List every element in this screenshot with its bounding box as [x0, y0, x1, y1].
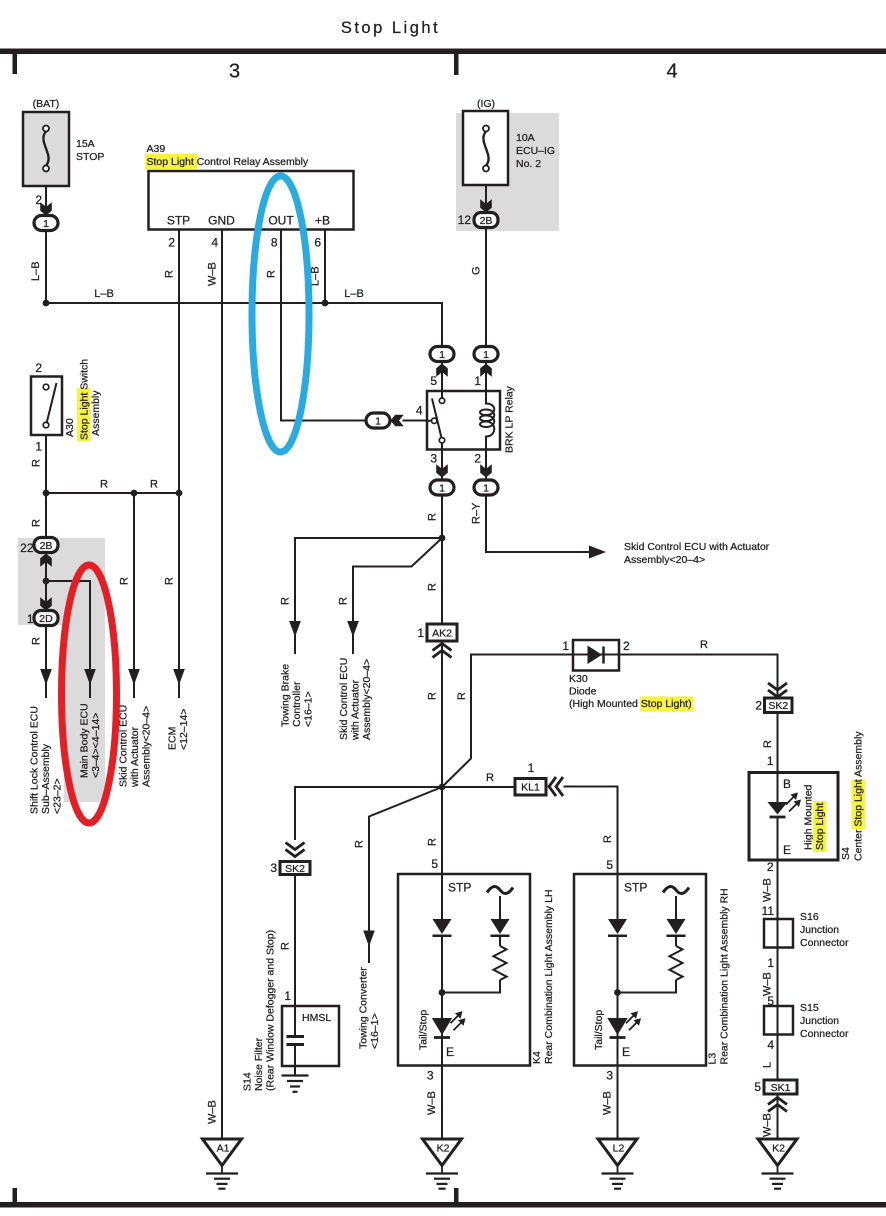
svg-text:ECM: ECM	[167, 727, 179, 750]
pin 1 label (S16)	[767, 956, 774, 970]
wire label R (HMSL)	[280, 942, 292, 950]
svg-text:R: R	[100, 479, 108, 491]
wire L-B bus	[46, 303, 442, 347]
LED tail/stop K4	[432, 1011, 466, 1037]
label Main Body ECU	[79, 703, 103, 778]
wire S15 to SK1	[777, 1035, 779, 1081]
wire to Towing Brake Controller	[295, 538, 442, 654]
wire label W-B (A1)	[207, 1100, 219, 1124]
svg-text:No. 2: No. 2	[516, 158, 541, 170]
pin 11 label	[762, 904, 775, 918]
pin number 8	[271, 236, 278, 250]
pin 3 label	[430, 452, 437, 466]
pin E label	[783, 843, 791, 857]
svg-text:R–Y: R–Y	[471, 502, 483, 524]
highlight Stop Light (A39)	[145, 154, 198, 170]
wire L3 to pin 3	[617, 1021, 619, 1066]
wire oval to pin 5	[441, 362, 443, 392]
wire to Skid Control ECU 2	[353, 538, 442, 654]
pin 1 label (KL1)	[528, 761, 535, 775]
svg-text:(High Mounted Stop Light): (High Mounted Stop Light)	[569, 698, 692, 710]
diode K30 symbol	[588, 646, 604, 665]
pin 1 label (coil)	[474, 374, 481, 388]
wire L-B down to bus	[45, 231, 47, 304]
svg-text:4: 4	[666, 61, 677, 83]
wire junction to AK2	[441, 538, 443, 624]
diode K30 box	[573, 640, 619, 671]
svg-text:8: 8	[271, 236, 278, 250]
pin number 6	[314, 236, 321, 250]
svg-text:Connector: Connector	[800, 1028, 849, 1040]
top tick left	[13, 54, 18, 74]
svg-text:1: 1	[43, 218, 49, 230]
pin 5 label (K4)	[431, 857, 438, 871]
lamp K4 box	[398, 874, 530, 1066]
wire label R (towing conv)	[354, 840, 366, 848]
label Assembly (A30)	[90, 390, 102, 436]
label Shift Lock Control ECU	[29, 706, 64, 814]
ground K2 left	[423, 1139, 462, 1189]
pin name STP	[167, 214, 190, 228]
svg-text:S16: S16	[800, 911, 819, 923]
svg-text:Assembly<20–4>: Assembly<20–4>	[624, 554, 705, 566]
svg-text:Sub–Assembly: Sub–Assembly	[40, 743, 52, 814]
connector AK2	[427, 624, 457, 641]
wire SK2 to S4	[777, 713, 779, 773]
svg-text:R: R	[338, 597, 350, 605]
wire K4 to ground	[441, 1066, 443, 1140]
label BRK LP Relay	[504, 385, 516, 453]
diode K4 left	[433, 919, 452, 936]
svg-text:Stop Light Switch: Stop Light Switch	[79, 359, 91, 440]
svg-text:R: R	[280, 942, 292, 950]
fuse 15A STOP box	[23, 112, 69, 186]
relay switch contact bottom	[439, 438, 444, 443]
svg-text:R: R	[602, 835, 614, 843]
wire L3 stp down	[617, 875, 619, 919]
wire label R (K4)	[427, 838, 439, 846]
grid number 4	[666, 61, 677, 83]
capacitor plates	[287, 1037, 305, 1045]
wire label R (skid)	[119, 577, 131, 585]
connector oval 1 (pin1)	[474, 347, 498, 362]
arrow to Skid Control ECU	[128, 669, 140, 685]
svg-text:SK1: SK1	[771, 1082, 791, 1094]
svg-text:R: R	[427, 838, 439, 846]
svg-text:1: 1	[474, 374, 481, 388]
svg-text:GND: GND	[208, 214, 235, 228]
arrow into 2B	[480, 199, 492, 212]
label K4	[531, 1051, 543, 1064]
svg-text:1: 1	[417, 626, 424, 640]
pin 1 label (2D)	[27, 612, 34, 626]
pin 2 label (S4)	[767, 860, 774, 874]
svg-text:R: R	[31, 519, 43, 527]
svg-text:(BAT): (BAT)	[33, 98, 60, 110]
label 15A STOP	[76, 138, 104, 163]
relay pin4 wire internal	[427, 420, 432, 422]
LED high mounted stop light	[768, 793, 802, 818]
svg-text:3: 3	[427, 1069, 434, 1083]
arrow to Main Body ECU	[84, 669, 96, 685]
svg-text:R: R	[266, 270, 278, 278]
connector SK2 right	[765, 698, 793, 713]
arrow into connector 1	[40, 202, 52, 215]
svg-text:W–B: W–B	[762, 1113, 774, 1137]
highlight Stop Light (K30)	[640, 697, 694, 712]
IG gray area	[456, 113, 559, 231]
ground K2 right	[758, 1139, 797, 1189]
highlight Stop Light (S4 inner)	[813, 801, 827, 852]
svg-text:R: R	[486, 772, 494, 784]
svg-text:with Actuator: with Actuator	[350, 679, 362, 741]
wire K4 branch mid	[499, 937, 501, 946]
svg-text:OUT: OUT	[268, 214, 294, 228]
svg-text:Junction: Junction	[800, 1015, 839, 1027]
svg-text:5: 5	[754, 1080, 761, 1094]
wire junction to diode	[442, 655, 573, 788]
label Skid Control ECU 2	[338, 658, 373, 741]
wire K4 to pin 3	[441, 1021, 443, 1066]
svg-text:W–B: W–B	[207, 262, 219, 286]
svg-text:1: 1	[375, 415, 381, 427]
red highlight ellipse	[62, 565, 117, 823]
svg-text:3: 3	[270, 861, 277, 875]
wire 2D down	[45, 626, 47, 699]
bus label R right	[150, 479, 158, 491]
wire into capacitor	[294, 1006, 296, 1036]
svg-text:R: R	[427, 513, 439, 521]
wire junction to K4	[441, 787, 443, 874]
svg-text:Stop Light Control Relay Assem: Stop Light Control Relay Assembly	[147, 156, 309, 168]
wire label W-B (L3)	[602, 1091, 614, 1115]
svg-text:Shift Lock Control ECU: Shift Lock Control ECU	[29, 706, 41, 814]
pin 5 label (S15)	[767, 994, 774, 1008]
svg-text:BRK LP Relay: BRK LP Relay	[504, 385, 516, 453]
label S16 Junction Connector	[800, 911, 849, 949]
pin B label	[783, 777, 791, 791]
wire branch to Main Body ECU	[46, 581, 90, 698]
svg-text:K4: K4	[531, 1051, 543, 1064]
wire fuse to 2B	[485, 185, 487, 213]
junction dot L3	[614, 989, 621, 996]
pin number 2	[168, 236, 175, 250]
svg-text:with Actuator: with Actuator	[129, 726, 141, 788]
wire label R (diode out)	[700, 639, 708, 651]
wire label R (STP)	[164, 270, 176, 278]
svg-text:R: R	[150, 479, 158, 491]
diode K30 wire internal	[573, 654, 619, 656]
gray area 2B-2D and Main Body ECU	[18, 538, 105, 802]
svg-text:L–B: L–B	[344, 288, 364, 300]
bottom tick center	[454, 1188, 459, 1202]
wire KL1 to RH lamp	[564, 787, 618, 876]
junction dot +B	[322, 300, 329, 307]
pin name GND	[208, 214, 235, 228]
wire through S15	[777, 1006, 779, 1035]
wire L3 branch upper	[675, 896, 677, 919]
svg-text:R: R	[164, 270, 176, 278]
svg-text:1: 1	[35, 440, 42, 454]
label 10A ECU-IG No. 2	[516, 132, 555, 170]
switch A30 box	[31, 377, 62, 436]
fuse 15A STOP symbol	[43, 126, 49, 172]
pin 2 label (K30)	[623, 639, 630, 653]
svg-text:STP: STP	[448, 881, 471, 895]
svg-text:1: 1	[284, 989, 291, 1003]
svg-text:W–B: W–B	[602, 1091, 614, 1115]
arrow down pin 2	[480, 464, 492, 477]
svg-text:E: E	[446, 1045, 454, 1059]
svg-text:K2: K2	[772, 1143, 785, 1155]
wire R bus	[46, 492, 179, 494]
svg-text:A39: A39	[147, 143, 166, 155]
switch blade	[47, 383, 57, 424]
wire AK2 to junction 787	[441, 641, 443, 787]
pin 4 label	[416, 404, 423, 418]
resistor K4	[494, 946, 507, 980]
junction dot main	[439, 535, 446, 542]
wire GND pin 4 down (W-B)	[221, 230, 223, 1140]
wire to ECM	[178, 493, 180, 698]
pin 1 label (AK2)	[417, 626, 424, 640]
bus label R left	[100, 479, 108, 491]
fuse 10A ECU-IG box	[463, 111, 508, 185]
pin 1 label (K30)	[562, 639, 569, 653]
pin 2 label (A30)	[35, 361, 42, 375]
svg-text:Noise Filter: Noise Filter	[253, 1037, 265, 1091]
pin 12 label	[458, 213, 472, 227]
wire junction to towing converter	[369, 787, 442, 963]
connector oval 1 (BAT)	[34, 216, 58, 231]
ground A1	[203, 1139, 242, 1189]
wire SK1 to ground	[777, 1094, 779, 1139]
svg-text:R: R	[164, 577, 176, 585]
connector oval 2B	[34, 538, 58, 553]
svg-text:K2: K2	[437, 1143, 450, 1155]
wire junction to KL1	[442, 786, 515, 788]
connector oval 1 (pin2)	[474, 480, 498, 495]
svg-text:ECU–IG: ECU–IG	[516, 145, 555, 157]
wire label R (RH lamp)	[602, 835, 614, 843]
relay coil	[480, 391, 494, 450]
pin 5 label (L3)	[606, 858, 613, 872]
bottom border bar	[0, 1202, 886, 1208]
wire label R (towing brake)	[280, 597, 292, 605]
wire STP pin 2 down	[178, 230, 180, 494]
svg-text:<3–4><4–14>: <3–4><4–14>	[90, 713, 102, 778]
svg-text:1: 1	[767, 754, 774, 768]
arrow to Skid Control ECU (right)	[589, 546, 606, 559]
label Skid Control ECU	[118, 705, 153, 788]
relay assembly A39 box	[149, 171, 354, 230]
wire L3 mid	[617, 937, 619, 1018]
wire label R (ECM)	[164, 577, 176, 585]
svg-text:HMSL: HMSL	[302, 1012, 331, 1024]
junction dot 2B-2D	[43, 578, 50, 585]
bottom tick left	[13, 1188, 18, 1202]
relay switch stub bottom	[441, 443, 443, 450]
svg-text:Rear Combination Light Assembl: Rear Combination Light Assembly LH	[543, 889, 555, 1064]
svg-text:L–B: L–B	[94, 288, 114, 300]
wire R to junction	[441, 495, 443, 538]
svg-text:R: R	[354, 840, 366, 848]
connector KL1	[515, 779, 546, 796]
arrow down pin 3	[436, 464, 448, 477]
tilde K4	[487, 887, 513, 894]
grid number 3	[229, 61, 240, 83]
label L3	[707, 1053, 719, 1065]
svg-text:R: R	[119, 577, 131, 585]
svg-text:W–B: W–B	[426, 1091, 438, 1115]
label Center Stop Light Assembly	[853, 731, 865, 861]
label Skid Control ECU with Actuator	[624, 541, 770, 566]
wire label W-B (GND)	[207, 262, 219, 286]
wire fuse to connector	[45, 186, 47, 216]
svg-text:15A: 15A	[76, 138, 95, 150]
pin 2 label	[35, 193, 42, 207]
wire label W-B (K4)	[426, 1091, 438, 1115]
wire S16 to S15	[777, 948, 779, 1007]
wire R-Y to skid pointer	[486, 495, 589, 552]
svg-text:W–B: W–B	[207, 1100, 219, 1124]
svg-text:Controller: Controller	[291, 681, 303, 727]
relay switch blade	[432, 399, 441, 438]
switch contacts	[43, 384, 49, 428]
svg-text:W–B: W–B	[762, 878, 774, 902]
svg-text:5: 5	[606, 858, 613, 872]
svg-text:12: 12	[458, 213, 472, 227]
wire label R (to AK2)	[427, 583, 439, 591]
arrow into 2D	[40, 597, 52, 610]
svg-text:Main Body ECU: Main Body ECU	[79, 703, 91, 778]
svg-text:<16–1>: <16–1>	[303, 691, 315, 727]
svg-text:R: R	[280, 597, 292, 605]
svg-text:KL1: KL1	[521, 782, 540, 794]
svg-text:R: R	[427, 692, 439, 700]
connector SK1	[764, 1080, 797, 1094]
wire label R-Y	[471, 502, 483, 524]
svg-text:<12–14>: <12–14>	[178, 709, 190, 750]
svg-text:1: 1	[439, 482, 445, 494]
wire L3 branch mid	[675, 937, 677, 946]
svg-text:High Mounted: High Mounted	[803, 784, 815, 850]
svg-text:Towing Brake: Towing Brake	[280, 664, 292, 727]
svg-text:L2: L2	[613, 1143, 625, 1155]
pin 3 label (SK2 left)	[270, 861, 277, 875]
wire oval to pin 1	[485, 362, 487, 392]
wire label L	[762, 1062, 774, 1068]
wire K4 stp down	[441, 874, 443, 919]
svg-text:SK2: SK2	[285, 863, 305, 875]
wire label R (below 2D)	[31, 637, 43, 645]
wire label R (skid 2)	[338, 597, 350, 605]
svg-text:5: 5	[430, 374, 437, 388]
svg-text:A30: A30	[64, 418, 76, 437]
connector oval 2D	[34, 611, 58, 626]
svg-text:22: 22	[20, 541, 34, 555]
wire label R (switch)	[31, 459, 43, 467]
fuse 10A ECU-IG symbol	[483, 126, 489, 172]
arrow up pin 1	[480, 364, 492, 377]
noise filter S14 box	[282, 1006, 339, 1066]
junction dot left	[43, 300, 50, 307]
svg-text:STP: STP	[167, 214, 190, 228]
junction dot R bus mid	[131, 490, 138, 497]
chevrons above SK2 right	[768, 683, 787, 697]
connector oval 1 (pin4)	[366, 413, 390, 428]
svg-text:Assembly<20–4>: Assembly<20–4>	[361, 659, 373, 740]
wire to Skid Control ECU	[133, 493, 135, 698]
svg-text:S4: S4	[840, 847, 852, 860]
wire label R (to S4)	[762, 740, 774, 748]
svg-text:Junction: Junction	[800, 924, 839, 936]
svg-text:(IG): (IG)	[477, 98, 495, 110]
junction dot R bus left	[43, 490, 50, 497]
svg-text:1: 1	[562, 639, 569, 653]
wire label R (diode branch)	[456, 692, 468, 700]
svg-text:W–B: W–B	[762, 972, 774, 996]
svg-text:Stop Light: Stop Light	[341, 19, 440, 37]
connector SK2 left	[280, 862, 310, 875]
svg-text:R: R	[762, 740, 774, 748]
svg-text:R: R	[31, 637, 43, 645]
svg-text:4: 4	[767, 1038, 774, 1052]
svg-text:Diode: Diode	[569, 686, 597, 698]
svg-text:L3: L3	[707, 1053, 719, 1065]
svg-text:Center Stop Light Assembly: Center Stop Light Assembly	[853, 731, 865, 861]
svg-text:Skid Control ECU with Actuator: Skid Control ECU with Actuator	[624, 541, 770, 553]
top border bar	[0, 49, 886, 55]
wire into LED	[777, 773, 779, 803]
svg-text:Connector: Connector	[800, 937, 849, 949]
svg-text:2: 2	[35, 361, 42, 375]
title Stop Light	[341, 19, 440, 37]
pin 5 label (SK1)	[754, 1080, 761, 1094]
svg-text:4: 4	[416, 404, 423, 418]
junction dot 787	[439, 784, 446, 791]
svg-text:2: 2	[623, 639, 630, 653]
chevrons right of KL1	[549, 777, 563, 796]
svg-text:4: 4	[211, 236, 218, 250]
svg-text:+B: +B	[315, 214, 330, 228]
svg-text:Stop Light: Stop Light	[814, 803, 826, 850]
S4 box	[749, 773, 838, 861]
arrow to Shift Lock ECU	[40, 669, 52, 685]
highlight Stop Light (S4 outer)	[852, 780, 866, 830]
wire G down to relay	[485, 228, 487, 347]
svg-text:11: 11	[762, 904, 775, 918]
junction dot K4	[439, 989, 446, 996]
label Tail/Stop (K4)	[418, 1010, 430, 1050]
relay switch contact top	[439, 398, 444, 403]
arrow up pin 5	[436, 364, 448, 377]
wire K4 branch lower	[442, 980, 500, 993]
wire capacitor out	[294, 1045, 296, 1076]
arrow to Skid Control ECU 2	[347, 621, 359, 637]
diode K4 right	[491, 919, 510, 936]
svg-text:<23–2>: <23–2>	[52, 778, 64, 814]
wire LED to E	[777, 818, 779, 860]
svg-text:Tail/Stop: Tail/Stop	[593, 1010, 605, 1050]
wire through S16	[777, 919, 779, 948]
label ECM	[167, 709, 191, 750]
svg-text:Assembly: Assembly	[90, 390, 102, 436]
label K30 Diode	[569, 673, 597, 698]
label Towing Converter	[358, 967, 382, 1049]
pin E label (L3)	[622, 1045, 630, 1059]
svg-text:STP: STP	[624, 881, 647, 895]
